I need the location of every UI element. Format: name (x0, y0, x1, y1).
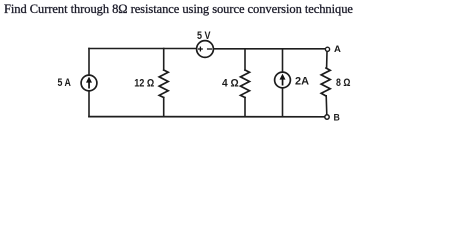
wire: 8ohm branch top lead (326, 52, 328, 68)
wire: 8ohm branch bottom lead (325, 96, 328, 115)
voltage source V1 5V circle (197, 41, 214, 58)
svg-text:5 A: 5 A (58, 77, 71, 89)
resistor R3 8ohm zigzag (321, 68, 330, 96)
wire: 12ohm branch bottom lead (163, 98, 165, 117)
current source I1 5A circle (81, 75, 97, 91)
current source I2 arrow (280, 74, 286, 86)
wire: 2A branch above source (282, 49, 284, 72)
wire: 12ohm branch top lead (163, 49, 165, 71)
wire: bottom rail (89, 116, 325, 118)
wire: 4ohm branch top lead (244, 49, 246, 70)
wire: top rail right segment (5V source to node A) (214, 48, 326, 50)
current source I2 2A circle (275, 72, 291, 88)
resistor R1 12ohm zigzag (159, 70, 168, 98)
wire: 4ohm branch bottom lead (244, 98, 246, 117)
wire: left branch below 5A source (88, 91, 90, 117)
voltage source V1 plus sign (199, 47, 203, 51)
resistor R2 4ohm zigzag (241, 70, 250, 98)
svg-text:2A: 2A (295, 76, 309, 88)
current source I1 arrow (86, 77, 92, 89)
svg-text:12 Ω: 12 Ω (134, 77, 154, 89)
svg-text:Find Current through 8Ω resist: Find Current through 8Ω resistance using… (4, 2, 353, 16)
node A terminal circle (325, 47, 329, 51)
voltage source V1 minus sign (208, 48, 212, 50)
wire: left branch above 5A source (88, 49, 90, 76)
wire: top rail left segment (left branch to 5V source) (89, 48, 197, 50)
node B terminal circle (325, 115, 329, 119)
wire: 2A branch below source (282, 88, 284, 117)
svg-text:B: B (334, 112, 340, 122)
svg-text:5 V: 5 V (197, 30, 211, 42)
svg-text:4 Ω: 4 Ω (222, 78, 239, 90)
svg-text:A: A (334, 44, 341, 55)
svg-text:8 Ω: 8 Ω (336, 77, 350, 89)
